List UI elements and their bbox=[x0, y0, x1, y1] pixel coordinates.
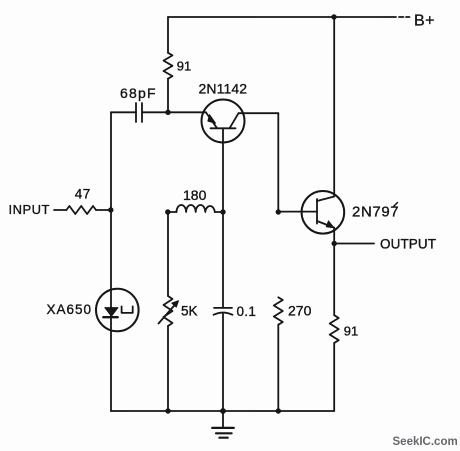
svg-text:180: 180 bbox=[183, 187, 207, 203]
wire output node to 91 bbox=[333, 244, 335, 316]
svg-text:91: 91 bbox=[344, 324, 358, 339]
wire to OUTPUT label bbox=[334, 243, 374, 245]
svg-text:270: 270 bbox=[288, 303, 312, 319]
wire capacitor to node bbox=[142, 111, 168, 113]
wire 91 to bottom rail corner bbox=[333, 343, 335, 411]
wire 47 to colA node bbox=[96, 209, 111, 211]
resistor 270 bbox=[274, 297, 283, 324]
node output junction bbox=[332, 241, 337, 246]
resistor 47 bbox=[66, 206, 96, 214]
tick mark over 2N797 label bbox=[394, 203, 398, 207]
wire 270 to bottom rail bbox=[277, 325, 279, 411]
node input junction bbox=[108, 207, 113, 212]
svg-text:INPUT: INPUT bbox=[9, 202, 51, 217]
node 180 left bbox=[165, 209, 170, 214]
wire colD down to node bbox=[277, 113, 279, 212]
wire colA corner to capacitor bbox=[111, 111, 136, 113]
node top junction bbox=[331, 14, 336, 19]
wire node to 2N1142 emitter bbox=[168, 111, 206, 113]
svg-text:B+: B+ bbox=[414, 13, 435, 30]
svg-text:2N797: 2N797 bbox=[352, 204, 399, 221]
wire resistor 91 to node bbox=[167, 79, 169, 113]
svg-text:0.1: 0.1 bbox=[237, 304, 257, 319]
wire colB node to 5K bbox=[167, 212, 169, 296]
wire base 2N797 bbox=[278, 211, 317, 213]
svg-text:5K: 5K bbox=[181, 304, 198, 319]
wire bottom rail bbox=[111, 410, 334, 412]
node ground junction bbox=[220, 408, 226, 414]
inductor 180 bbox=[177, 205, 215, 212]
svg-text:OUTPUT: OUTPUT bbox=[380, 237, 436, 252]
wire top rail B+ bbox=[168, 16, 396, 18]
ground bbox=[212, 411, 234, 438]
tunnel diode XA650 bbox=[96, 289, 139, 332]
wire 2N797 emitter to output node bbox=[333, 228, 335, 244]
capacitor 68pF bbox=[136, 103, 142, 122]
svg-text:68pF: 68pF bbox=[120, 85, 157, 101]
wire dash to B+ label bbox=[399, 16, 410, 18]
wire colA vertical bbox=[110, 112, 112, 411]
svg-text:47: 47 bbox=[75, 187, 91, 202]
svg-text:2N1142: 2N1142 bbox=[199, 81, 248, 97]
resistor 91 (bottom) bbox=[330, 315, 339, 343]
variable resistor 5K bbox=[159, 296, 179, 326]
node colD row bbox=[276, 209, 281, 214]
wire 0.1 cap to ground node bbox=[222, 314, 224, 411]
wire 180 left lead bbox=[168, 211, 177, 213]
resistor 91 (top) bbox=[164, 53, 173, 79]
wire 180 right lead bbox=[215, 211, 223, 213]
wire 2N1142 base stem down bbox=[222, 128, 224, 212]
wire INPUT lead bbox=[54, 209, 66, 211]
transistor 2N797 bbox=[302, 191, 345, 234]
transistor 2N1142 bbox=[202, 100, 245, 143]
node bottom colD bbox=[276, 408, 281, 413]
wire colE B+ down to 2N797 bbox=[333, 17, 335, 197]
capacitor 0.1 bbox=[214, 308, 233, 315]
node bottom colB bbox=[165, 408, 170, 413]
svg-text:91: 91 bbox=[177, 59, 191, 74]
svg-text:SeekIC.com: SeekIC.com bbox=[393, 436, 458, 448]
wire 5K to bottom rail bbox=[167, 326, 169, 411]
svg-text:XA650: XA650 bbox=[47, 302, 93, 317]
node capacitor/base junction bbox=[165, 110, 170, 115]
wire colB top (rail to resistor 91) bbox=[167, 17, 169, 53]
wire colC node to 0.1 cap bbox=[222, 212, 224, 308]
node 180 right bbox=[220, 209, 225, 214]
wire 2N1142 collector to colD bbox=[239, 112, 279, 114]
